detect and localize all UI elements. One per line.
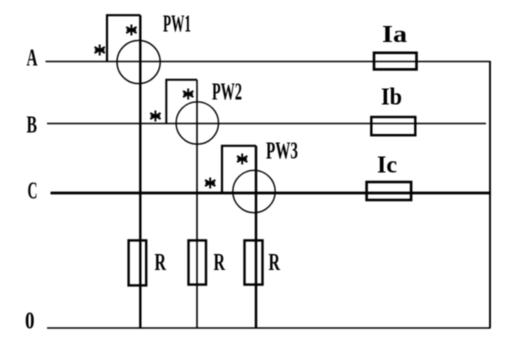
polarity mark PW3 inner <box>237 154 247 165</box>
wattmeter PW2 current coil box <box>166 80 197 124</box>
svg-text:Ia: Ia <box>382 22 407 48</box>
svg-text:0: 0 <box>25 309 35 335</box>
polarity mark PW3 outer <box>205 178 215 189</box>
svg-text:C: C <box>28 179 38 205</box>
wire phase C rail <box>51 192 492 195</box>
svg-text:R: R <box>214 250 226 276</box>
wire phase A rail <box>46 61 491 63</box>
wire PW3 voltage drop <box>255 146 258 328</box>
wire PW2 voltage drop <box>196 80 198 328</box>
wire PW1 voltage drop <box>139 15 141 328</box>
svg-text:A: A <box>27 46 38 72</box>
svg-text:PW3: PW3 <box>266 139 298 165</box>
svg-text:PW1: PW1 <box>163 12 191 38</box>
wire right vertical bus <box>489 61 491 328</box>
polarity mark PW1 outer <box>95 45 105 56</box>
wire neutral 0 rail <box>47 327 491 329</box>
load Ib box <box>371 117 415 135</box>
wattmeter PW1 meter circle <box>117 40 160 83</box>
svg-text:R: R <box>269 250 281 276</box>
svg-text:PW2: PW2 <box>212 80 242 106</box>
wattmeter PW3 meter circle <box>233 170 275 212</box>
resistor R1 box <box>129 240 147 285</box>
svg-text:Ic: Ic <box>377 152 397 178</box>
svg-text:B: B <box>27 113 38 139</box>
polarity mark PW2 outer <box>150 111 160 122</box>
wattmeter PW3 current coil box <box>222 146 256 193</box>
load Ic box <box>367 182 412 200</box>
wattmeter PW2 meter circle <box>176 102 218 144</box>
svg-text:R: R <box>155 250 167 276</box>
wattmeter PW1 current coil box <box>107 15 140 61</box>
resistor R3 box <box>245 240 263 284</box>
polarity mark PW2 inner <box>183 89 193 100</box>
load Ia box <box>374 53 417 70</box>
polarity mark PW1 inner <box>126 25 136 36</box>
wire phase B rail <box>47 123 486 125</box>
svg-text:Ib: Ib <box>381 84 402 110</box>
resistor R2 box <box>189 240 207 284</box>
